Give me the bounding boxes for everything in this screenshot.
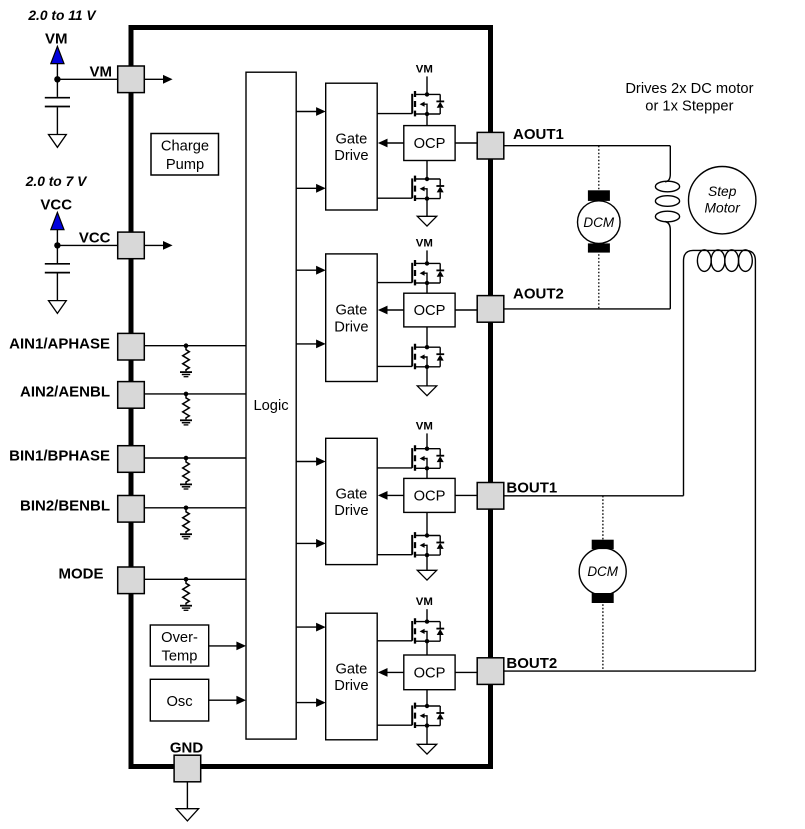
pin BOUT1 (package terminal)	[477, 483, 504, 510]
wire low-side source to ground BOUT1	[426, 555, 428, 570]
block OCP (BOUT2)	[404, 655, 455, 690]
svg-text:2.0 to 7 V: 2.0 to 7 V	[25, 174, 88, 189]
svg-text:OCP: OCP	[414, 489, 446, 505]
wire high-side source to OCP BOUT2	[426, 641, 428, 655]
wire Logic to Gate Drive BOUT2 arrow 2	[296, 698, 326, 707]
ground (chassis) for AIN1/APHASE pulldown	[180, 372, 192, 377]
ground (chassis) for MODE pulldown	[180, 606, 192, 611]
capacitor VM bypass	[45, 79, 70, 134]
node VCC junction	[54, 242, 60, 248]
wire OCP to pin BOUT2	[455, 671, 477, 673]
svg-text:Temp: Temp	[162, 649, 198, 665]
wire Logic to Gate Drive AOUT2 arrow 2	[296, 340, 326, 349]
ground BOUT1 half-bridge (open triangle)	[417, 570, 436, 580]
wire Logic to Gate Drive BOUT1 arrow 1	[296, 457, 326, 466]
wire Logic to Gate Drive BOUT1 arrow 2	[296, 539, 326, 548]
inductor stepper winding B	[684, 250, 756, 671]
node VM junction	[54, 76, 60, 82]
pin VM (package terminal)	[118, 66, 145, 93]
svg-text:Gate: Gate	[335, 303, 367, 319]
wire AIN2/AENBL to Logic	[144, 393, 246, 395]
chip outline (device block border)	[131, 28, 491, 767]
svg-text:VCC: VCC	[79, 230, 111, 247]
svg-text:VCC: VCC	[40, 197, 72, 214]
wire BIN1/BPHASE to Logic	[144, 457, 246, 459]
wire OCP to pin AOUT2	[455, 309, 477, 311]
ground VM (open triangle)	[49, 135, 67, 148]
wire BOUT2 external	[504, 670, 756, 672]
wire VCC to pin	[57, 244, 117, 246]
ground AOUT1 half-bridge (open triangle)	[417, 216, 436, 226]
svg-text:Osc: Osc	[166, 694, 192, 710]
inductor stepper winding A	[655, 146, 679, 309]
wire OCP to low-side FET BOUT1	[426, 512, 428, 535]
wire VCC internal arrow	[144, 241, 172, 250]
wire AOUT1 external	[504, 145, 671, 147]
svg-text:Gate: Gate	[335, 486, 367, 502]
svg-text:BIN1/BPHASE: BIN1/BPHASE	[9, 448, 110, 465]
transistor low-side NMOS (BOUT1) with body diode	[377, 532, 444, 557]
wire high-side source to OCP AOUT2	[426, 283, 428, 293]
svg-text:VM: VM	[416, 420, 433, 432]
pin GND (package terminal)	[174, 755, 201, 782]
wire DCM1 dashed branch	[598, 146, 600, 309]
block Gate Drive (BOUT2 half-bridge)	[326, 613, 378, 740]
wire Logic to Gate Drive BOUT2 arrow 1	[296, 623, 326, 632]
motor Step Motor	[689, 167, 756, 234]
resistor pulldown on BIN2/BENBL	[183, 508, 190, 534]
wire VM internal arrow	[144, 75, 172, 84]
svg-text:Drive: Drive	[334, 319, 368, 335]
wire AIN1/APHASE to Logic	[144, 345, 246, 347]
svg-text:VM: VM	[45, 31, 68, 48]
wire Logic to Gate Drive AOUT2 arrow 1	[296, 266, 326, 275]
wire low-side source to ground AOUT1	[426, 199, 428, 217]
block Gate Drive (AOUT1 half-bridge)	[326, 83, 378, 210]
svg-text:VM: VM	[90, 64, 113, 81]
svg-text:Pump: Pump	[166, 157, 204, 173]
capacitor VCC bypass	[45, 245, 70, 300]
svg-text:BOUT2: BOUT2	[506, 655, 557, 672]
pin AIN2/AENBL (package terminal)	[118, 382, 145, 409]
block OCP (BOUT1)	[404, 478, 455, 512]
svg-text:DCM: DCM	[583, 215, 614, 230]
wire BIN2/BENBL to Logic	[144, 507, 246, 509]
svg-text:VM: VM	[416, 596, 433, 608]
transistor low-side NMOS (BOUT2) with body diode	[377, 703, 444, 728]
block Gate Drive (AOUT2 half-bridge)	[326, 254, 378, 382]
svg-text:Gate: Gate	[335, 661, 367, 677]
wire VM to high-side FET AOUT2	[426, 250, 428, 263]
svg-text:MODE: MODE	[59, 566, 104, 583]
wire OCP to Gate Drive AOUT1 (arrow)	[378, 139, 404, 148]
annotation Drives 2x DC motor / or 1x Stepper	[625, 81, 753, 114]
node BIN1/BPHASE pulldown junction	[184, 456, 189, 461]
node MODE pulldown junction	[184, 577, 189, 582]
wire OCP to pin BOUT1	[455, 494, 477, 496]
wire high-side source to OCP BOUT1	[426, 468, 428, 478]
svg-text:2.0 to 11 V: 2.0 to 11 V	[27, 8, 97, 23]
svg-text:Over-: Over-	[161, 630, 198, 646]
svg-text:Step: Step	[708, 184, 737, 199]
resistor pulldown on MODE	[183, 579, 190, 605]
node BIN2/BENBL pulldown junction	[184, 506, 189, 511]
transistor low-side NMOS (AOUT1) with body diode	[377, 176, 444, 201]
wire VM to high-side FET BOUT1	[426, 433, 428, 448]
ground (chassis) for AIN2/AENBL pulldown	[180, 420, 192, 425]
wire Osc to Logic (arrow)	[209, 696, 246, 705]
ground (chassis) for BIN1/BPHASE pulldown	[180, 484, 192, 489]
wire GND to ground	[186, 782, 188, 809]
ground BOUT2 half-bridge (open triangle)	[417, 744, 436, 754]
block OCP (AOUT1)	[404, 126, 455, 161]
svg-text:Drive: Drive	[334, 678, 368, 694]
node AIN1/APHASE pulldown junction	[184, 343, 189, 348]
svg-text:Drive: Drive	[334, 148, 368, 164]
block Osc	[150, 679, 208, 721]
svg-text:AIN1/APHASE: AIN1/APHASE	[9, 335, 110, 352]
svg-text:Motor: Motor	[705, 200, 742, 215]
supply arrow VCC (blue)	[51, 212, 64, 229]
svg-text:Drives 2x DC motor: Drives 2x DC motor	[625, 81, 753, 97]
svg-text:or 1x Stepper: or 1x Stepper	[645, 98, 733, 114]
wire OCP to Gate Drive BOUT2 (arrow)	[378, 668, 404, 677]
block OCP (AOUT2)	[404, 293, 455, 327]
wire low-side source to ground AOUT2	[426, 367, 428, 386]
transistor high-side NMOS (BOUT1) with body diode	[377, 445, 444, 470]
pin BIN2/BENBL (package terminal)	[118, 496, 145, 523]
pin VCC (package terminal)	[118, 232, 145, 259]
resistor pulldown on AIN2/AENBL	[183, 394, 190, 420]
pin AOUT2 (package terminal)	[477, 296, 504, 323]
motor DCM1 (DC motor between AOUT1/AOUT2)	[578, 190, 621, 252]
svg-text:Drive: Drive	[334, 503, 368, 519]
node AIN2/AENBL pulldown junction	[184, 392, 189, 397]
motor DCM2 (DC motor between BOUT1/BOUT2)	[579, 540, 626, 603]
transistor low-side NMOS (AOUT2) with body diode	[377, 344, 444, 369]
wire OCP to low-side FET AOUT1	[426, 161, 428, 180]
resistor pulldown on BIN1/BPHASE	[183, 458, 190, 484]
transistor high-side NMOS (AOUT2) with body diode	[377, 260, 444, 285]
ground (chassis) for BIN2/BENBL pulldown	[180, 534, 192, 539]
svg-text:AIN2/AENBL: AIN2/AENBL	[20, 384, 110, 401]
wire OCP to low-side FET BOUT2	[426, 690, 428, 706]
transistor high-side NMOS (AOUT1) with body diode	[377, 91, 444, 116]
svg-text:Logic: Logic	[253, 398, 288, 414]
svg-text:AOUT2: AOUT2	[513, 286, 564, 303]
svg-text:VM: VM	[416, 63, 433, 75]
svg-text:Gate: Gate	[335, 131, 367, 147]
svg-text:OCP: OCP	[414, 666, 446, 682]
svg-text:OCP: OCP	[414, 303, 446, 319]
svg-text:BIN2/BENBL: BIN2/BENBL	[20, 497, 110, 514]
resistor pulldown on AIN1/APHASE	[183, 346, 190, 372]
ground AOUT2 half-bridge (open triangle)	[417, 386, 436, 396]
wire VM to pin	[57, 78, 117, 80]
wire Over-Temp to Logic (arrow)	[209, 642, 246, 651]
wire BOUT1 external	[504, 495, 684, 497]
wire OCP to Gate Drive AOUT2 (arrow)	[378, 306, 404, 315]
wire VM stem	[56, 64, 58, 80]
svg-text:OCP: OCP	[414, 136, 446, 152]
wire MODE to Logic	[144, 578, 246, 580]
wire OCP to low-side FET AOUT2	[426, 327, 428, 347]
svg-text:AOUT1: AOUT1	[513, 126, 564, 143]
wire Logic to Gate Drive AOUT1 arrow 2	[296, 184, 326, 193]
wire high-side source to OCP AOUT1	[426, 114, 428, 126]
wire VM to high-side FET AOUT1	[426, 76, 428, 94]
transistor high-side NMOS (BOUT2) with body diode	[377, 618, 444, 643]
wire AOUT2 external	[504, 308, 671, 310]
ground GND (open triangle)	[176, 809, 198, 821]
wire OCP to Gate Drive BOUT1 (arrow)	[378, 491, 404, 500]
wire VM to high-side FET BOUT2	[426, 609, 428, 621]
pin BIN1/BPHASE (package terminal)	[118, 446, 145, 473]
ground VCC (open triangle)	[49, 301, 67, 314]
pin AIN1/APHASE (package terminal)	[118, 333, 145, 360]
svg-text:GND: GND	[170, 740, 204, 757]
svg-text:Charge: Charge	[161, 138, 209, 154]
pin BOUT2 (package terminal)	[477, 658, 504, 685]
wire OCP to pin AOUT1	[455, 142, 477, 144]
svg-text:VM: VM	[416, 237, 433, 249]
svg-text:DCM: DCM	[587, 564, 618, 579]
block Gate Drive (BOUT1 half-bridge)	[326, 438, 378, 564]
svg-text:BOUT1: BOUT1	[506, 479, 557, 496]
block Over-Temp	[150, 625, 208, 666]
block Charge Pump	[151, 134, 219, 176]
pin AOUT1 (package terminal)	[477, 132, 504, 159]
block Logic	[246, 72, 296, 739]
pin MODE (package terminal)	[118, 567, 145, 594]
wire Logic to Gate Drive AOUT1 arrow 1	[296, 107, 326, 116]
wire VCC stem	[56, 230, 58, 246]
wire low-side source to ground BOUT2	[426, 726, 428, 745]
supply arrow VM (blue)	[51, 46, 64, 63]
wire DCM2 dashed branch	[602, 496, 604, 671]
